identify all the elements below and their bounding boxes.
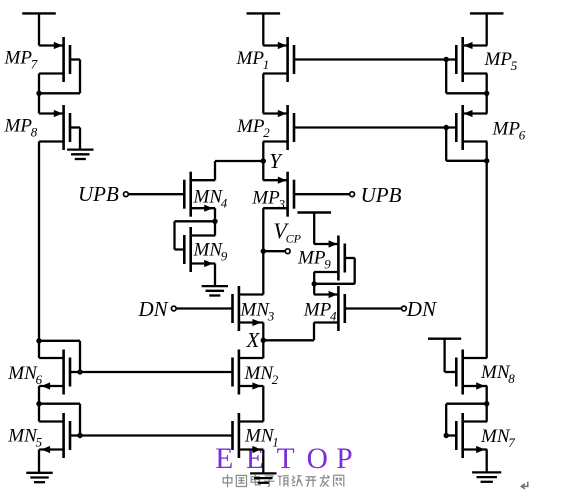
svg-text:UPB: UPB <box>361 183 402 207</box>
svg-text:T: T <box>277 443 295 475</box>
svg-text:DN: DN <box>138 297 169 321</box>
svg-text:P: P <box>336 443 352 475</box>
svg-text:DN: DN <box>406 297 437 321</box>
svg-text:UPB: UPB <box>78 182 119 206</box>
svg-text:X: X <box>246 328 261 352</box>
svg-text:O: O <box>307 443 328 475</box>
svg-text:E: E <box>215 443 233 475</box>
